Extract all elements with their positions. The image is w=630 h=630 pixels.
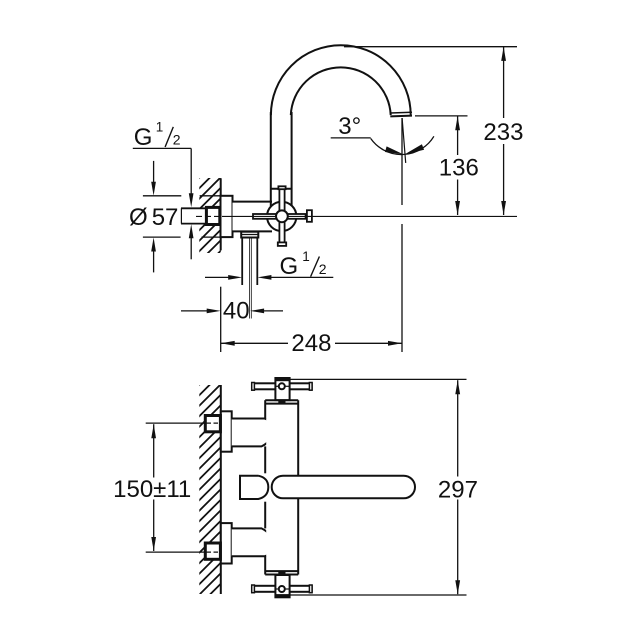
- svg-text:233: 233: [483, 119, 523, 146]
- svg-text:3°: 3°: [338, 113, 361, 140]
- svg-text:1: 1: [302, 249, 310, 264]
- svg-text:2: 2: [173, 131, 181, 147]
- svg-text:150±11: 150±11: [113, 476, 191, 503]
- svg-text:G: G: [280, 253, 299, 280]
- svg-text:2: 2: [319, 261, 327, 277]
- svg-text:Ø: Ø: [129, 204, 148, 231]
- svg-text:57: 57: [152, 204, 179, 231]
- svg-text:G: G: [134, 124, 153, 151]
- svg-text:40: 40: [223, 297, 250, 324]
- svg-text:1: 1: [156, 120, 164, 135]
- svg-text:248: 248: [291, 330, 331, 357]
- svg-text:136: 136: [439, 154, 479, 181]
- svg-text:297: 297: [438, 476, 478, 503]
